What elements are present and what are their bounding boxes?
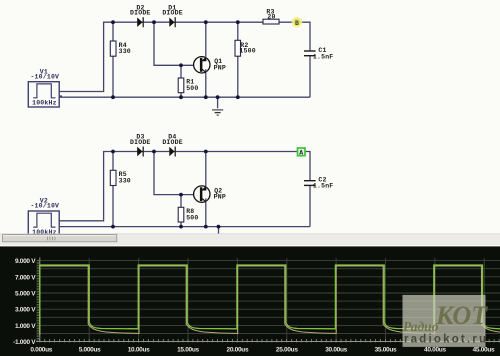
svg-text:9.000 V: 9.000 V (15, 258, 36, 265)
svg-text:0.000us: 0.000us (30, 347, 52, 354)
svg-text:10.00us: 10.00us (128, 347, 150, 354)
svg-text:-1.000 V: -1.000 V (13, 339, 36, 346)
svg-text:40.00us: 40.00us (424, 347, 446, 354)
svg-text:500: 500 (186, 215, 198, 222)
svg-text:30.00us: 30.00us (325, 347, 347, 354)
svg-text:-10/10V: -10/10V (30, 203, 59, 210)
svg-text:DIODE: DIODE (162, 10, 183, 17)
svg-text:5.000us: 5.000us (79, 347, 101, 354)
svg-text:330: 330 (119, 48, 131, 55)
svg-text:DIODE: DIODE (130, 139, 151, 146)
svg-text:35.00us: 35.00us (375, 347, 397, 354)
svg-text:1.000 V: 1.000 V (15, 323, 36, 330)
svg-text:330: 330 (119, 178, 131, 185)
svg-text:PNP: PNP (214, 194, 226, 201)
svg-text:КОТ: КОТ (435, 301, 488, 330)
svg-text:B: B (295, 20, 299, 27)
svg-text:5.000 V: 5.000 V (15, 291, 36, 298)
svg-text:1500: 1500 (239, 48, 255, 55)
svg-text:Радио: Радио (403, 319, 439, 334)
svg-text:1.5nF: 1.5nF (313, 53, 334, 60)
svg-text:25.00us: 25.00us (276, 347, 298, 354)
svg-text:45.00us: 45.00us (473, 347, 495, 354)
svg-text:DIODE: DIODE (162, 139, 183, 146)
svg-text:3.000 V: 3.000 V (15, 307, 36, 314)
svg-text:1.5nF: 1.5nF (313, 183, 334, 190)
svg-text:A: A (299, 150, 303, 157)
svg-text:PNP: PNP (214, 64, 226, 71)
svg-text:radiokot.ru: radiokot.ru (404, 334, 488, 346)
svg-text:20.00us: 20.00us (227, 347, 249, 354)
svg-text:DIODE: DIODE (130, 10, 151, 17)
svg-text:500: 500 (186, 85, 198, 92)
svg-text:-10/10V: -10/10V (30, 73, 59, 80)
svg-text:15.00us: 15.00us (177, 347, 199, 354)
svg-text:20: 20 (267, 14, 275, 21)
svg-text:7.000 V: 7.000 V (15, 274, 36, 281)
svg-text:100kHz: 100kHz (32, 100, 57, 107)
